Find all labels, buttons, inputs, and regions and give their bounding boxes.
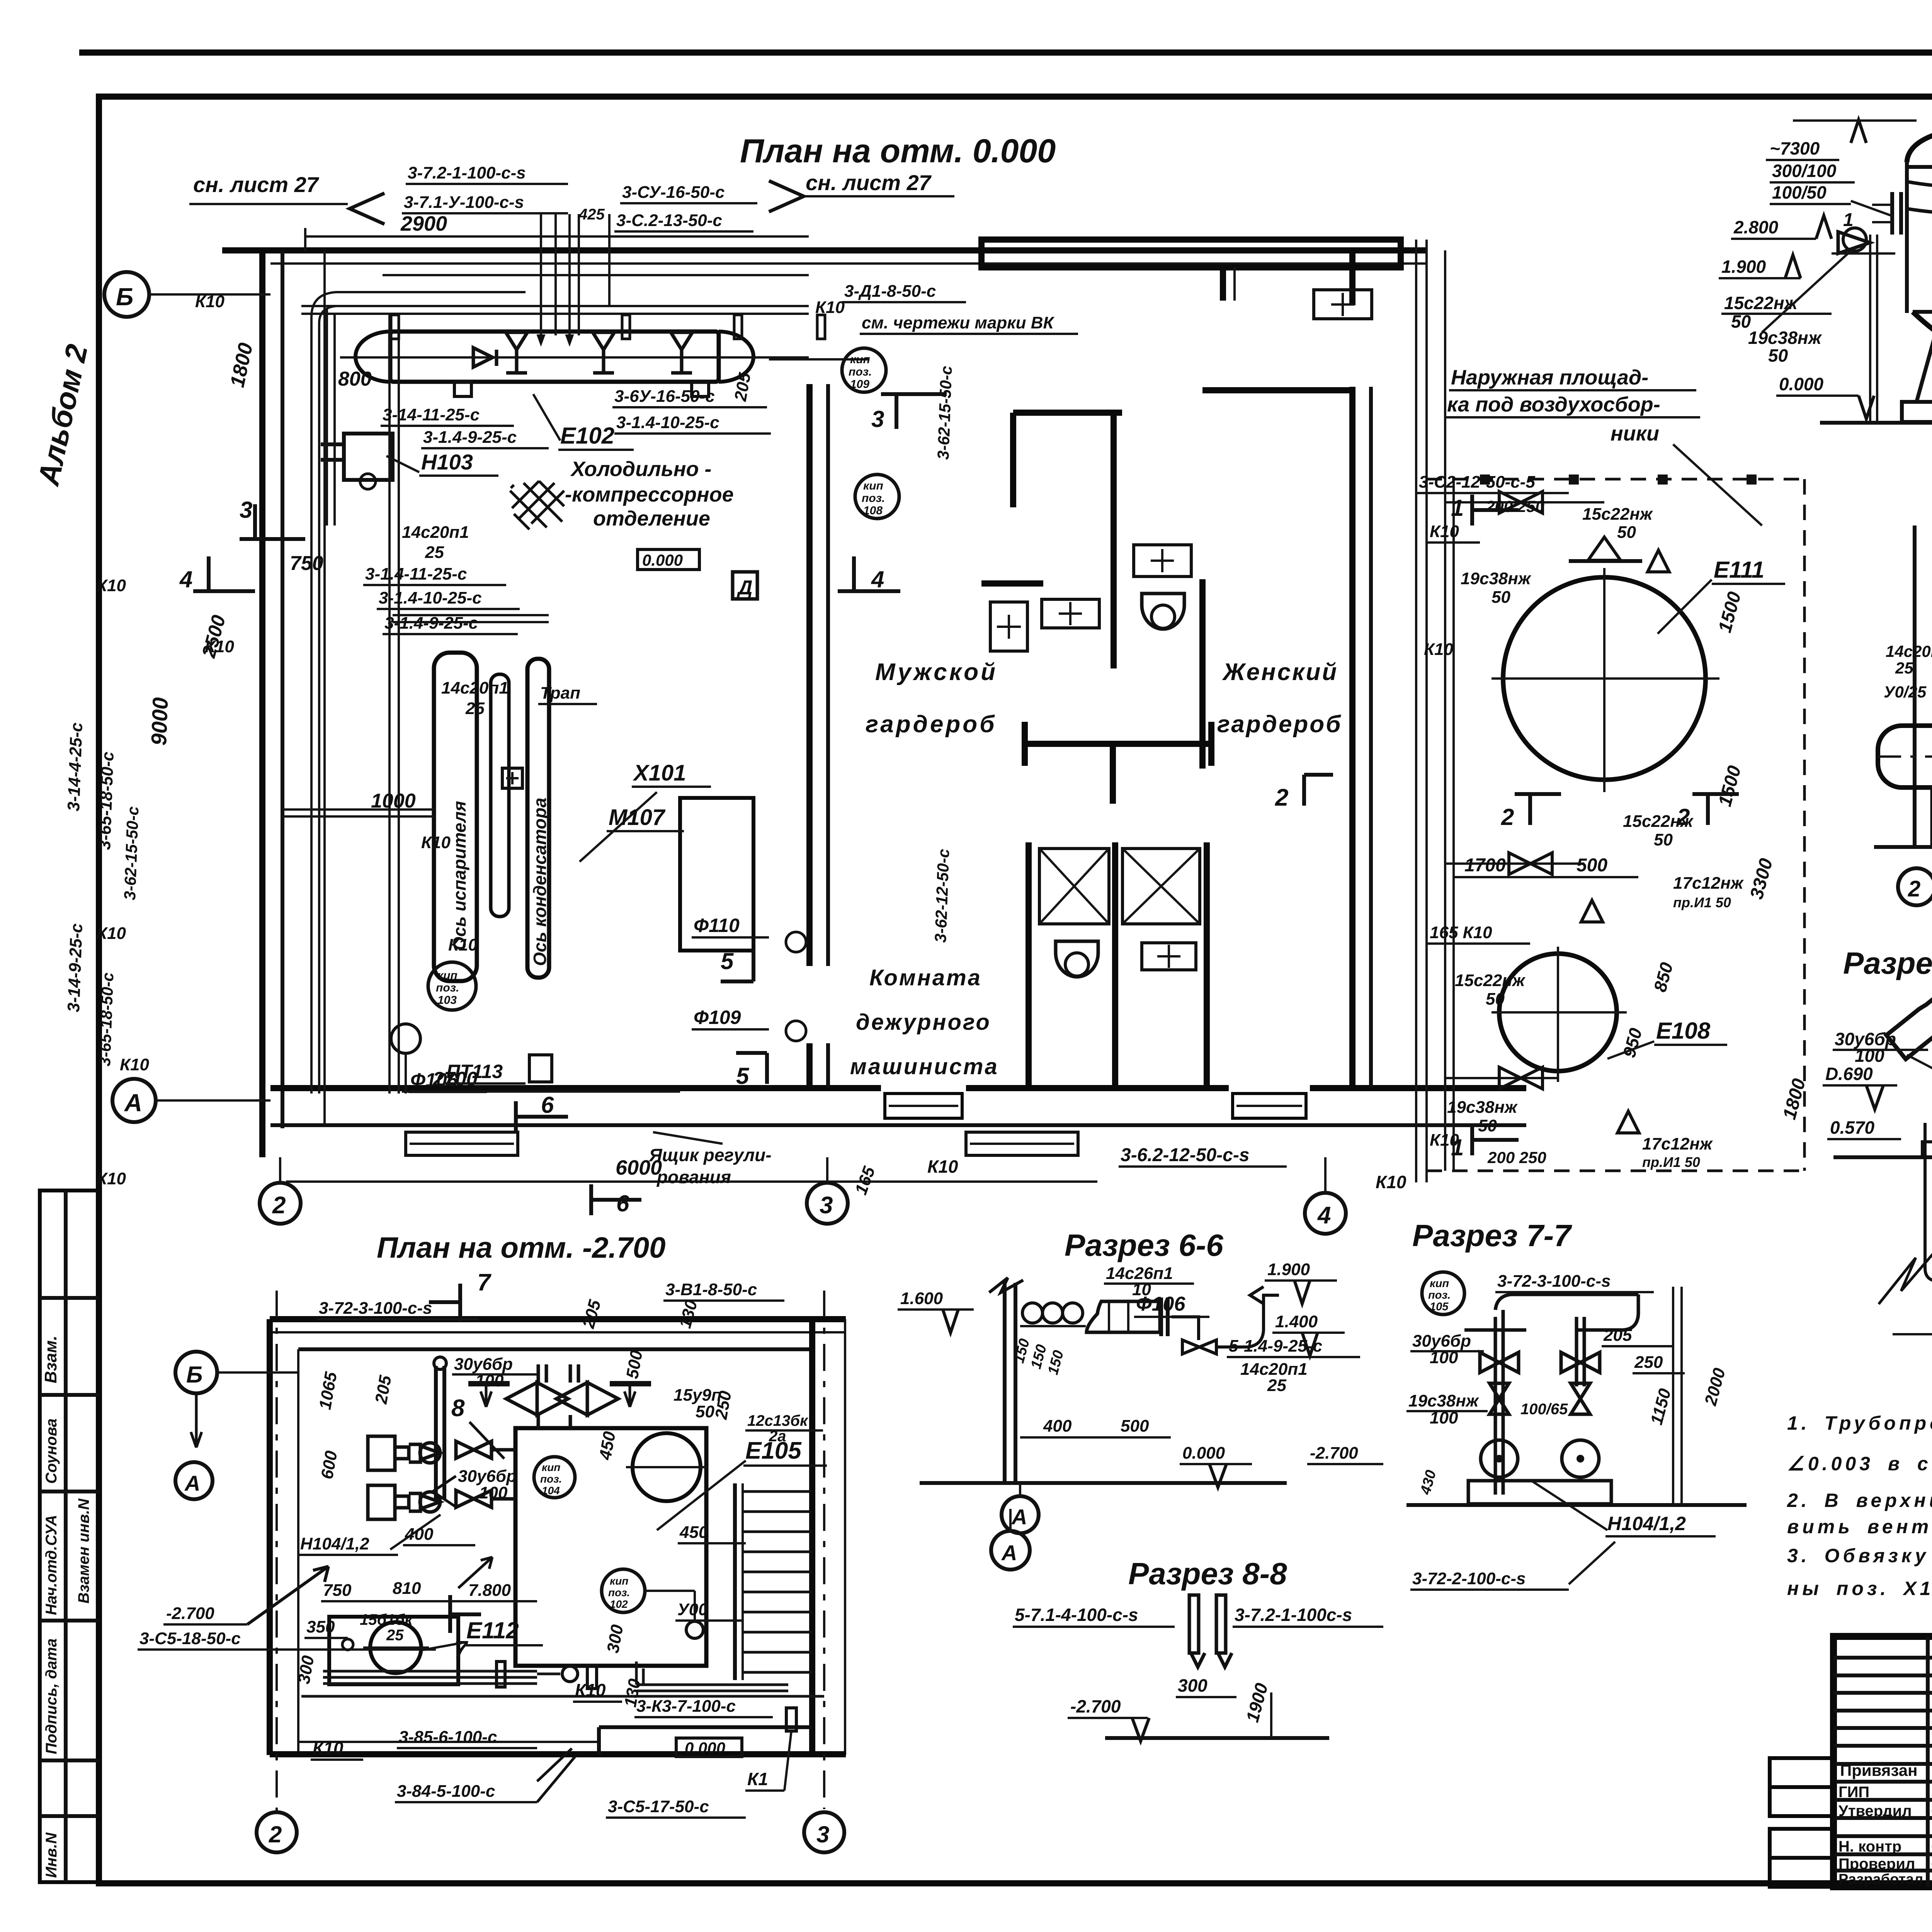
svg-text:103: 103 xyxy=(437,994,457,1007)
svg-text:500: 500 xyxy=(1577,855,1607,876)
svg-text:2: 2 xyxy=(1677,804,1690,830)
svg-text:3: 3 xyxy=(871,406,884,432)
svg-text:0.000: 0.000 xyxy=(685,1739,725,1757)
svg-text:~7300: ~7300 xyxy=(1770,138,1820,158)
svg-text:Ф109: Ф109 xyxy=(694,1007,741,1028)
svg-text:3-84-5-100-с: 3-84-5-100-с xyxy=(397,1782,495,1801)
valves xyxy=(1480,1352,1600,1414)
svg-text:102: 102 xyxy=(610,1598,628,1610)
svg-text:К1: К1 xyxy=(747,1769,768,1789)
svg-text:К10: К10 xyxy=(815,298,845,317)
svg-text:рования: рования xyxy=(656,1167,731,1187)
svg-text:3-К3-7-100-с: 3-К3-7-100-с xyxy=(636,1697,736,1716)
svg-text:К10: К10 xyxy=(120,1055,150,1074)
pumps H103 xyxy=(344,434,393,480)
north wall xyxy=(222,247,1428,253)
svg-text:поз.: поз. xyxy=(849,366,872,378)
svg-text:100: 100 xyxy=(479,1483,508,1502)
svg-text:2. В верхних и нижних точках: 2. В верхних и нижних точках трубопровод… xyxy=(1787,1490,1932,1511)
svg-text:дежурного: дежурного xyxy=(856,1010,991,1035)
walls xyxy=(270,1316,846,1322)
svg-text:3-72-3-100-с-s: 3-72-3-100-с-s xyxy=(319,1299,432,1318)
svg-text:К10: К10 xyxy=(1376,1172,1406,1192)
svg-text:3-С.2-13-50-с: 3-С.2-13-50-с xyxy=(616,211,722,230)
svg-text:Б: Б xyxy=(186,1362,202,1388)
svg-text:3. Обвязку фреоновых трубопр: 3. Обвязку фреоновых трубопроводов у хол… xyxy=(1787,1545,1932,1566)
svg-text:кип: кип xyxy=(850,353,870,366)
grid bubbles xyxy=(104,272,149,317)
svg-text:50: 50 xyxy=(1478,1116,1497,1135)
svg-text:А: А xyxy=(1011,1505,1027,1529)
svg-text:2: 2 xyxy=(1908,876,1920,901)
svg-text:ны поз. Х101 сделать по м: ны поз. Х101 сделать по месту. xyxy=(1787,1578,1932,1599)
svg-text:гардероб: гардероб xyxy=(866,711,997,738)
svg-text:1700: 1700 xyxy=(1464,855,1506,876)
svg-text:0.570: 0.570 xyxy=(1830,1117,1875,1138)
svg-text:Н. контр: Н. контр xyxy=(1838,1838,1901,1855)
ground xyxy=(1820,421,1932,425)
svg-text:кип: кип xyxy=(1430,1277,1449,1290)
svg-text:7.800: 7.800 xyxy=(468,1581,511,1600)
svg-text:-2.700: -2.700 xyxy=(166,1604,214,1623)
svg-text:Е108: Е108 xyxy=(1656,1018,1711,1044)
svg-text:поз.: поз. xyxy=(1428,1289,1451,1301)
svg-text:2: 2 xyxy=(1501,804,1514,830)
left wall xyxy=(1913,526,1917,846)
svg-text:15с22нж: 15с22нж xyxy=(1582,505,1653,524)
grid bubbles Б / А xyxy=(175,1352,217,1393)
svg-text:30у6бр: 30у6бр xyxy=(458,1467,517,1486)
svg-text:50: 50 xyxy=(1654,830,1673,849)
svg-text:3-62-15-50-с: 3-62-15-50-с xyxy=(121,806,142,900)
svg-text:Инв.N: Инв.N xyxy=(43,1832,60,1878)
svg-text:Подпись, дата: Подпись, дата xyxy=(43,1638,60,1754)
svg-text:А: А xyxy=(184,1471,200,1495)
svg-text:5-1.4-9-25-с: 5-1.4-9-25-с xyxy=(1229,1337,1322,1355)
svg-text:ГИП: ГИП xyxy=(1838,1784,1869,1801)
labels xyxy=(138,1280,827,1818)
left signature table verticals xyxy=(1926,1636,1930,1887)
svg-text:D.690: D.690 xyxy=(1825,1064,1873,1084)
svg-text:Привязан: Привязан xyxy=(1840,1761,1917,1779)
svg-text:Б: Б xyxy=(116,283,133,311)
platform piping left column xyxy=(1445,250,1604,1171)
extra left margin labels xyxy=(95,366,955,1066)
grid lines xyxy=(276,1291,278,1811)
svg-text:1: 1 xyxy=(1843,210,1854,230)
svg-text:К10: К10 xyxy=(313,1738,344,1758)
svg-text:Разрез 4-4: Разрез 4-4 xyxy=(1843,946,1932,980)
svg-text:3-В1-8-50-с: 3-В1-8-50-с xyxy=(665,1280,757,1299)
svg-text:5: 5 xyxy=(736,1063,750,1089)
svg-text:План на отм. 0.000: План на отм. 0.000 xyxy=(740,133,1056,170)
svg-text:0.000: 0.000 xyxy=(1779,374,1824,394)
svg-text:Разрез 7-7: Разрез 7-7 xyxy=(1412,1218,1572,1253)
svg-text:Н104/1,2: Н104/1,2 xyxy=(300,1534,369,1553)
svg-text:поз.: поз. xyxy=(862,492,885,505)
E108 plan circle xyxy=(1499,954,1617,1071)
svg-text:100/50: 100/50 xyxy=(1772,182,1827,202)
svg-text:50: 50 xyxy=(1492,588,1510,607)
svg-text:К10: К10 xyxy=(1430,522,1459,541)
svg-text:поз.: поз. xyxy=(608,1587,630,1599)
svg-text:Наружная площад-: Наружная площад- xyxy=(1451,366,1648,389)
E111 vessel xyxy=(1907,124,1932,162)
svg-text:50: 50 xyxy=(696,1402,714,1421)
svg-text:750: 750 xyxy=(290,552,323,575)
svg-text:14с20п1: 14с20п1 xyxy=(1886,642,1932,660)
svg-text:Ф110: Ф110 xyxy=(694,915,740,936)
X101 Y-manifold xyxy=(1886,971,1932,1070)
svg-text:8: 8 xyxy=(451,1395,465,1422)
svg-text:Взамен инв.N: Взамен инв.N xyxy=(75,1498,92,1604)
svg-text:3-14-4-25-с: 3-14-4-25-с xyxy=(64,722,86,811)
svg-text:сн. лист 27: сн. лист 27 xyxy=(193,172,320,197)
svg-text:17с12нж: 17с12нж xyxy=(1642,1134,1713,1153)
svg-text:кип: кип xyxy=(610,1575,628,1587)
svg-text:4: 4 xyxy=(179,566,192,592)
svg-text:350: 350 xyxy=(306,1617,335,1636)
svg-text:К10: К10 xyxy=(927,1156,958,1177)
labels sec 1-1 xyxy=(1719,120,1932,540)
svg-text:3-1.4-9-25-с: 3-1.4-9-25-с xyxy=(384,614,478,633)
svg-text:∠0.003 в сторону опорожнени: ∠0.003 в сторону опорожнения. xyxy=(1787,1453,1932,1475)
svg-text:А: А xyxy=(1001,1541,1017,1565)
left riser xyxy=(1869,235,1871,423)
svg-text:200 250: 200 250 xyxy=(1487,1148,1546,1167)
svg-text:Ф106: Ф106 xyxy=(1136,1293,1185,1315)
riser column xyxy=(434,1366,438,1499)
svg-text:205: 205 xyxy=(1603,1326,1632,1345)
title block xyxy=(1770,1636,1932,1891)
left signature table rows xyxy=(1833,1656,1932,1660)
legs xyxy=(1917,332,1932,402)
svg-text:19с38нж: 19с38нж xyxy=(1461,569,1532,588)
svg-text:Нач.отд.СУА: Нач.отд.СУА xyxy=(43,1515,60,1615)
svg-text:3-7.2-1-100с-s: 3-7.2-1-100с-s xyxy=(1235,1605,1352,1625)
svg-text:108: 108 xyxy=(863,504,883,517)
doors bottom: small squares under south wall xyxy=(406,1132,518,1155)
svg-text:пр.И1 50: пр.И1 50 xyxy=(1673,895,1731,910)
svg-text:3-65-18-50-с: 3-65-18-50-с xyxy=(95,751,117,850)
svg-text:3-72-2-100-с-s: 3-72-2-100-с-s xyxy=(1412,1569,1526,1588)
svg-text:25: 25 xyxy=(425,543,444,562)
svg-text:800: 800 xyxy=(338,368,372,390)
svg-text:Ось конденсатора: Ось конденсатора xyxy=(530,798,550,966)
svg-text:-компрессорное: -компрессорное xyxy=(565,483,734,506)
M107 machine xyxy=(680,798,753,951)
svg-text:104: 104 xyxy=(542,1485,560,1497)
svg-text:5: 5 xyxy=(721,948,734,974)
svg-text:Е111: Е111 xyxy=(1714,557,1764,583)
inner frame xyxy=(96,94,102,1886)
svg-text:К10: К10 xyxy=(97,924,126,943)
svg-text:3-14-9-25-с: 3-14-9-25-с xyxy=(64,923,86,1012)
svg-text:3-85-6-100-с: 3-85-6-100-с xyxy=(399,1728,497,1747)
svg-text:см. чертежи марки ВК: см. чертежи марки ВК xyxy=(862,313,1054,332)
east wall of building xyxy=(1349,387,1355,1088)
svg-text:50: 50 xyxy=(1768,345,1788,366)
svg-text:3-С5-17-50-с: 3-С5-17-50-с xyxy=(608,1797,709,1816)
svg-text:У00: У00 xyxy=(677,1600,708,1619)
svg-text:ка под воздухосбор-: ка под воздухосбор- xyxy=(1447,393,1660,416)
svg-text:М107: М107 xyxy=(609,805,666,830)
svg-text:2: 2 xyxy=(269,1821,282,1847)
svg-text:-2.700: -2.700 xyxy=(1310,1444,1358,1463)
svg-text:15с22нж: 15с22нж xyxy=(1455,971,1526,990)
svg-text:сн. лист 27: сн. лист 27 xyxy=(806,170,932,195)
svg-text:6: 6 xyxy=(616,1190,629,1216)
svg-text:Н104/1,2: Н104/1,2 xyxy=(1607,1513,1686,1534)
svg-text:9000: 9000 xyxy=(146,697,172,746)
svg-text:Женский: Женский xyxy=(1222,659,1338,685)
svg-text:3-Д1-8-50-с: 3-Д1-8-50-с xyxy=(844,282,936,301)
ground xyxy=(1874,845,1932,849)
svg-text:14с20п1: 14с20п1 xyxy=(441,679,509,697)
svg-text:3-72-3-100-с-s: 3-72-3-100-с-s xyxy=(1497,1272,1611,1291)
svg-text:300/100: 300/100 xyxy=(1772,161,1837,181)
KIP circles xyxy=(842,348,886,392)
svg-text:2: 2 xyxy=(272,1192,286,1219)
svg-text:1. Трубопроводы воды и прод: 1. Трубопроводы воды и продувки проложит… xyxy=(1787,1412,1932,1434)
svg-text:15у9п: 15у9п xyxy=(673,1386,722,1405)
west wall xyxy=(259,250,265,1157)
svg-text:17с12нж: 17с12нж xyxy=(1673,874,1744,893)
svg-text:1: 1 xyxy=(1451,1134,1464,1160)
svg-text:200 250: 200 250 xyxy=(1485,497,1544,515)
pit U pipes xyxy=(1925,1117,1932,1281)
svg-text:3-1.4-9-25-с: 3-1.4-9-25-с xyxy=(423,428,517,447)
svg-text:4: 4 xyxy=(1317,1202,1331,1229)
small cells left of title block xyxy=(1770,1758,1833,1787)
svg-text:Д: Д xyxy=(736,577,753,599)
svg-text:100/65: 100/65 xyxy=(1520,1401,1568,1418)
svg-text:19с38нж: 19с38нж xyxy=(1748,328,1822,348)
svg-text:30у6бр: 30у6бр xyxy=(454,1355,513,1374)
0.000 box xyxy=(676,1738,742,1757)
bottom pipe runs xyxy=(301,1662,824,1696)
svg-text:Соунова: Соунова xyxy=(43,1418,60,1484)
shower cabins xyxy=(1026,842,1032,1087)
left nozzle+flange xyxy=(1890,192,1894,235)
left stamp column xyxy=(40,1190,99,1882)
svg-text:25: 25 xyxy=(386,1627,404,1644)
F106 + PT113 xyxy=(391,1024,420,1053)
svg-text:5-7.1-4-100-с-s: 5-7.1-4-100-с-s xyxy=(1015,1605,1138,1625)
svg-text:Н103: Н103 xyxy=(421,450,473,474)
svg-text:3-1.4-10-25-с: 3-1.4-10-25-с xyxy=(379,588,482,607)
svg-text:50: 50 xyxy=(1617,523,1636,542)
hatch square xyxy=(510,481,564,529)
E112 xyxy=(329,1617,458,1684)
svg-text:25: 25 xyxy=(465,699,485,718)
svg-text:Мужской: Мужской xyxy=(875,659,998,685)
svg-text:19с38нж: 19с38нж xyxy=(1408,1391,1480,1410)
bathroom block walls xyxy=(1013,410,1122,416)
svg-text:100: 100 xyxy=(1855,1046,1884,1066)
svg-text:3-СУ-16-50-с: 3-СУ-16-50-с xyxy=(622,183,724,202)
svg-text:ники: ники xyxy=(1611,422,1659,445)
svg-text:1: 1 xyxy=(1451,495,1464,521)
svg-text:2900: 2900 xyxy=(400,212,447,235)
svg-text:1.600: 1.600 xyxy=(900,1289,943,1308)
svg-text:1.900: 1.900 xyxy=(1267,1260,1310,1279)
svg-text:3-7.2-1-100-с-s: 3-7.2-1-100-с-s xyxy=(408,163,526,182)
svg-text:400: 400 xyxy=(405,1525,434,1544)
svg-text:-2.700: -2.700 xyxy=(1070,1696,1121,1716)
svg-text:12с13бк: 12с13бк xyxy=(747,1412,808,1429)
svg-text:6: 6 xyxy=(541,1092,554,1118)
svg-text:Ось испарителя: Ось испарителя xyxy=(449,801,469,951)
svg-text:пр.И1 50: пр.И1 50 xyxy=(1642,1154,1700,1170)
notes text xyxy=(1787,1412,1932,1599)
svg-text:3-65-18-50-с: 3-65-18-50-с xyxy=(95,972,117,1066)
svg-text:3-6У-16-50-с: 3-6У-16-50-с xyxy=(614,387,715,406)
svg-text:2: 2 xyxy=(1275,784,1288,811)
svg-text:К10: К10 xyxy=(1424,640,1454,659)
svg-text:Е112: Е112 xyxy=(466,1617,519,1643)
platform xyxy=(1415,240,1417,1182)
svg-text:1000: 1000 xyxy=(371,790,416,812)
columns (evaporator/condenser) xyxy=(434,653,477,981)
central tank pit + E105 xyxy=(515,1428,706,1666)
south wall xyxy=(270,1085,881,1091)
svg-text:А: А xyxy=(124,1089,142,1117)
svg-text:3-С5-18-50-с: 3-С5-18-50-с xyxy=(139,1629,241,1648)
svg-text:425: 425 xyxy=(578,206,605,223)
svg-text:поз.: поз. xyxy=(540,1473,562,1485)
svg-text:7: 7 xyxy=(477,1269,492,1296)
svg-text:3-6.2-12-50-с-s: 3-6.2-12-50-с-s xyxy=(1121,1145,1250,1165)
svg-text:15б1бк: 15б1бк xyxy=(360,1611,413,1628)
sec mark 2 in plan xyxy=(1275,775,1333,811)
svg-text:25: 25 xyxy=(1267,1376,1286,1395)
svg-text:кип: кип xyxy=(863,480,883,492)
svg-text:300: 300 xyxy=(1178,1675,1207,1696)
svg-text:Ящик регули-: Ящик регули- xyxy=(649,1145,772,1165)
svg-text:50: 50 xyxy=(1486,990,1505,1009)
svg-text:0.000: 0.000 xyxy=(1182,1444,1225,1463)
svg-text:Х101: Х101 xyxy=(633,760,686,786)
svg-text:250: 250 xyxy=(1634,1353,1663,1372)
svg-text:К10: К10 xyxy=(575,1680,606,1700)
svg-text:450: 450 xyxy=(679,1523,708,1542)
svg-text:Разработал: Разработал xyxy=(1838,1871,1923,1888)
E102 vessel horizontal xyxy=(1878,726,1932,787)
svg-text:Разрез 8-8: Разрез 8-8 xyxy=(1128,1556,1287,1591)
svg-text:кип: кип xyxy=(542,1461,560,1473)
svg-text:Трап: Трап xyxy=(540,684,580,702)
svg-text:3-7.1-У-100-с-s: 3-7.1-У-100-с-s xyxy=(404,193,524,212)
svg-text:2.800: 2.800 xyxy=(1733,217,1779,237)
svg-text:1.400: 1.400 xyxy=(1275,1312,1318,1331)
trap xyxy=(502,768,522,788)
svg-text:К10: К10 xyxy=(448,935,478,954)
E111 plan circle xyxy=(1503,577,1706,780)
svg-text:4: 4 xyxy=(871,566,884,592)
svg-text:500: 500 xyxy=(1121,1417,1149,1435)
valves on axis xyxy=(473,332,692,373)
svg-text:У0/25: У0/25 xyxy=(1884,683,1927,701)
svg-text:К10: К10 xyxy=(421,833,451,852)
svg-text:0.000: 0.000 xyxy=(642,551,683,569)
svg-text:3: 3 xyxy=(240,497,252,523)
svg-text:165 К10: 165 К10 xyxy=(1430,923,1492,942)
svg-text:750: 750 xyxy=(323,1581,352,1600)
svg-text:отделение: отделение xyxy=(593,507,710,530)
svg-text:гардероб: гардероб xyxy=(1217,711,1342,738)
stairs xyxy=(733,1483,737,1680)
corridor wall xyxy=(806,384,813,966)
top valve cluster xyxy=(468,1364,651,1430)
svg-text:3-62-12-50-с: 3-62-12-50-с xyxy=(931,849,952,943)
svg-text:План на отм. -2.700: План на отм. -2.700 xyxy=(377,1231,665,1264)
svg-text:вить вентили для спуска во: вить вентили для спуска воды и воздуха. xyxy=(1787,1516,1932,1537)
svg-text:810: 810 xyxy=(393,1579,421,1598)
svg-text:3: 3 xyxy=(816,1821,829,1847)
kerb xyxy=(1922,1133,1932,1157)
svg-text:кип: кип xyxy=(437,969,457,982)
svg-text:3-1.4-11-25-с: 3-1.4-11-25-с xyxy=(365,565,467,583)
svg-text:Утвердил: Утвердил xyxy=(1838,1803,1912,1820)
svg-text:3-1.4-10-25-с: 3-1.4-10-25-с xyxy=(616,413,719,432)
svg-text:19с38нж: 19с38нж xyxy=(1447,1098,1518,1117)
svg-text:ПТ113: ПТ113 xyxy=(446,1061,503,1082)
svg-text:14с20п1: 14с20п1 xyxy=(402,523,469,542)
piping xyxy=(282,214,809,1125)
pumps H104 xyxy=(368,1436,515,1519)
svg-text:Разрез 6-6: Разрез 6-6 xyxy=(1065,1228,1223,1262)
svg-text:Е105: Е105 xyxy=(745,1437,802,1464)
svg-text:3-62-15-50-с: 3-62-15-50-с xyxy=(934,366,955,460)
svg-text:3-С2-12-50-с-5: 3-С2-12-50-с-5 xyxy=(1419,473,1535,492)
svg-text:поз.: поз. xyxy=(436,981,459,994)
svg-text:400: 400 xyxy=(1043,1417,1072,1435)
svg-text:109: 109 xyxy=(850,378,869,391)
section 7 marks xyxy=(458,1284,462,1321)
E102 vessel xyxy=(390,332,719,382)
svg-text:3-14-11-25-с: 3-14-11-25-с xyxy=(383,405,480,424)
svg-text:Проверил: Проверил xyxy=(1838,1855,1915,1872)
svg-text:Комната: Комната xyxy=(869,965,982,990)
svg-text:3: 3 xyxy=(820,1192,833,1219)
svg-text:машиниста: машиниста xyxy=(850,1054,999,1079)
svg-text:Е102: Е102 xyxy=(560,423,614,449)
fixtures xyxy=(990,602,1027,651)
svg-text:Взам.: Взам. xyxy=(41,1336,60,1383)
svg-text:30у6бр: 30у6бр xyxy=(1412,1332,1471,1350)
labels xyxy=(1884,524,1932,891)
svg-text:105: 105 xyxy=(1430,1301,1449,1313)
svg-text:К10: К10 xyxy=(97,576,126,595)
ground lines xyxy=(1833,1155,1932,1159)
svg-text:Холодильно -: Холодильно - xyxy=(570,457,711,481)
svg-text:К10: К10 xyxy=(97,1169,126,1188)
svg-text:25: 25 xyxy=(1895,659,1913,677)
svg-text:1.900: 1.900 xyxy=(1721,257,1766,277)
